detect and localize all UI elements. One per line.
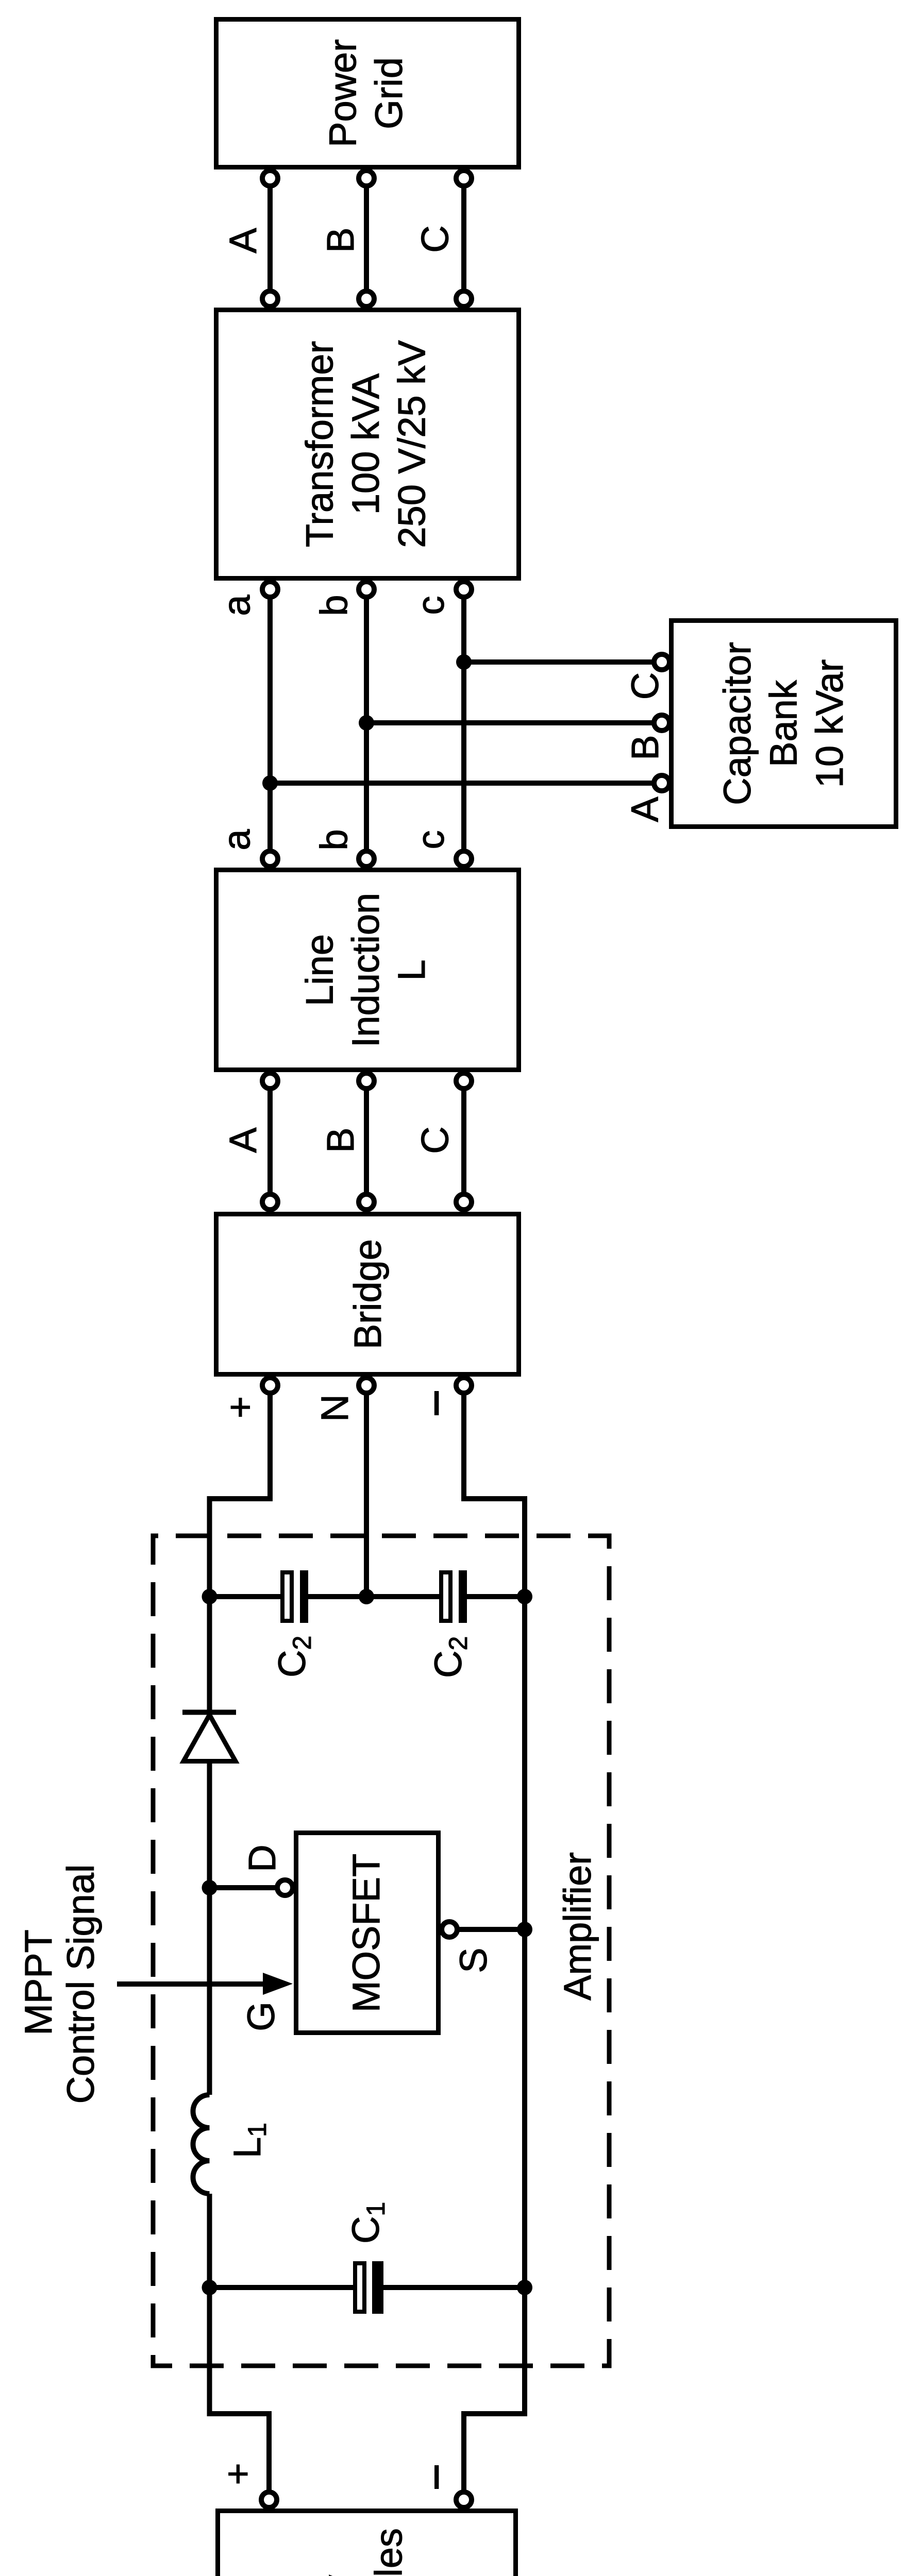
svg-text:MOSFET: MOSFET bbox=[345, 1854, 388, 2012]
wire C grid-transformer bbox=[461, 178, 466, 299]
junction mid bus node bbox=[359, 1589, 374, 1604]
svg-text:C1: C1 bbox=[344, 2202, 390, 2244]
svg-text:C: C bbox=[414, 1126, 457, 1154]
terminal grid A bbox=[262, 171, 278, 186]
terminal grid C bbox=[456, 171, 472, 186]
svg-text:G: G bbox=[240, 2002, 282, 2031]
wire A grid-transformer bbox=[267, 178, 273, 299]
terminal bridge C bbox=[456, 1194, 472, 1210]
svg-text:10 kVar: 10 kVar bbox=[808, 659, 851, 788]
svg-text:100 kVA: 100 kVA bbox=[344, 373, 387, 515]
junction bottom bus node bbox=[517, 1589, 532, 1604]
terminal capbank C bbox=[654, 654, 669, 670]
junction phase C bbox=[456, 654, 472, 670]
wire capbank phase B drop bbox=[366, 720, 662, 725]
junction top bus node bbox=[202, 1589, 217, 1604]
terminal induction a bbox=[262, 851, 278, 867]
junction phase B bbox=[359, 715, 374, 731]
svg-text:Capacitor: Capacitor bbox=[716, 642, 759, 805]
wire bottom rail bbox=[464, 1597, 525, 2499]
svg-text:Induction: Induction bbox=[344, 893, 387, 1047]
junction phase A bbox=[262, 775, 278, 791]
terminal bridge A bbox=[262, 1194, 278, 1210]
svg-text:+: + bbox=[219, 1396, 261, 1418]
block Line Induction bbox=[216, 870, 519, 1070]
terminal transformer B bbox=[359, 291, 374, 307]
wire DC minus from bridge bbox=[464, 1385, 525, 1597]
svg-text:C: C bbox=[414, 225, 457, 252]
terminal capbank A bbox=[654, 775, 669, 791]
label minus bridge bbox=[434, 1391, 439, 1415]
wire MOSFET drain bbox=[210, 1885, 284, 1890]
svg-text:Power: Power bbox=[322, 39, 364, 147]
svg-text:a: a bbox=[215, 595, 258, 616]
svg-text:Control Signal: Control Signal bbox=[59, 1865, 102, 2104]
diode D1 bbox=[182, 1713, 236, 1761]
svg-text:D: D bbox=[241, 1844, 283, 1872]
capacitor C1 bbox=[210, 2261, 525, 2314]
wire capbank phase C drop bbox=[464, 659, 662, 665]
wire N from bridge bbox=[364, 1385, 369, 1597]
junction C1 top node bbox=[202, 2280, 217, 2295]
svg-text:L: L bbox=[390, 959, 433, 980]
svg-text:A: A bbox=[624, 796, 666, 822]
svg-text:c: c bbox=[409, 596, 452, 615]
terminal induction c bbox=[456, 851, 472, 867]
svg-text:B: B bbox=[319, 227, 362, 252]
terminal bridge minus bbox=[456, 1378, 472, 1393]
MPPT control arrow bbox=[117, 1973, 293, 1995]
junction D node bbox=[202, 1880, 217, 1895]
svg-text:Amplifier: Amplifier bbox=[556, 1852, 599, 2001]
svg-text:250 V/25 kV: 250 V/25 kV bbox=[391, 340, 433, 548]
block Transformer bbox=[216, 310, 519, 579]
mosfet Q1 bbox=[296, 1833, 439, 2033]
svg-text:MPPT: MPPT bbox=[17, 1929, 60, 2036]
wire C induction-bridge bbox=[461, 1081, 466, 1202]
terminal PV minus bbox=[456, 2492, 472, 2507]
svg-text:A: A bbox=[222, 228, 264, 253]
capacitor C2 upper bbox=[210, 1570, 367, 1623]
junction S node bbox=[517, 1922, 532, 1937]
svg-text:A: A bbox=[222, 1127, 264, 1153]
terminal induction out a bbox=[262, 1073, 278, 1089]
svg-text:+: + bbox=[216, 2463, 259, 2485]
wire diode to D node bbox=[207, 1761, 212, 1888]
svg-text:S: S bbox=[452, 1947, 495, 1973]
junction C1 bottom node bbox=[517, 2280, 532, 2295]
terminal transformer A bbox=[262, 291, 278, 307]
block Power Grid bbox=[216, 20, 519, 167]
terminal transformer c bbox=[456, 582, 472, 597]
svg-text:N: N bbox=[313, 1394, 356, 1421]
block PV Modules bbox=[218, 2511, 516, 2576]
block Bridge bbox=[216, 1214, 519, 1375]
terminal PV plus bbox=[261, 2492, 277, 2507]
wire c transformer-induction bbox=[461, 589, 466, 859]
wire B grid-transformer bbox=[364, 178, 369, 299]
terminal grid B bbox=[359, 171, 374, 186]
terminal bridge N bbox=[359, 1378, 374, 1393]
svg-text:Grid: Grid bbox=[367, 57, 410, 129]
svg-text:c: c bbox=[409, 831, 452, 850]
wire capbank phase A drop bbox=[270, 781, 662, 786]
svg-text:B: B bbox=[319, 1127, 362, 1153]
svg-text:C2: C2 bbox=[271, 1636, 316, 1677]
terminal induction out c bbox=[456, 1073, 472, 1089]
terminal transformer C bbox=[456, 291, 472, 307]
capacitor C2 lower bbox=[366, 1570, 525, 1623]
wire top rail bus to diode bbox=[207, 1597, 212, 1712]
block Capacitor Bank bbox=[672, 621, 896, 827]
terminal capbank B bbox=[654, 715, 669, 731]
wire b transformer-induction bbox=[364, 589, 369, 859]
svg-text:b: b bbox=[313, 595, 356, 616]
svg-text:b: b bbox=[313, 829, 356, 850]
wire B induction-bridge bbox=[364, 1081, 369, 1202]
terminal bridge B bbox=[359, 1194, 374, 1210]
svg-text:Line: Line bbox=[298, 934, 341, 1006]
wire MOSFET source bbox=[450, 1927, 525, 1932]
svg-text:Bridge: Bridge bbox=[346, 1239, 389, 1349]
svg-text:C2: C2 bbox=[427, 1636, 473, 1678]
svg-text:C: C bbox=[624, 672, 666, 700]
wire D node to inductor bbox=[207, 1888, 212, 2095]
svg-text:L1: L1 bbox=[226, 2123, 272, 2158]
svg-text:a: a bbox=[215, 829, 258, 851]
svg-text:B: B bbox=[624, 735, 666, 760]
pin S circle bbox=[442, 1922, 457, 1937]
terminal transformer a bbox=[262, 582, 278, 597]
wire inductor to PV corner bbox=[210, 2194, 270, 2499]
svg-text:Bank: Bank bbox=[762, 680, 805, 767]
terminal induction b bbox=[359, 851, 374, 867]
wire DC plus from bridge bbox=[210, 1385, 271, 1597]
wire A induction-bridge bbox=[267, 1081, 273, 1202]
pin D circle bbox=[277, 1880, 293, 1895]
terminal induction out b bbox=[359, 1073, 374, 1089]
terminal transformer b bbox=[359, 582, 374, 597]
terminal bridge plus bbox=[262, 1378, 278, 1393]
svg-text:Transformer: Transformer bbox=[298, 341, 341, 547]
dashed box Amplifier bbox=[153, 1536, 609, 2366]
wire a transformer-induction bbox=[267, 589, 273, 859]
svg-text:Modules: Modules bbox=[367, 2528, 410, 2576]
inductor L1 bbox=[193, 2095, 210, 2194]
label minus PV bbox=[434, 2465, 439, 2489]
